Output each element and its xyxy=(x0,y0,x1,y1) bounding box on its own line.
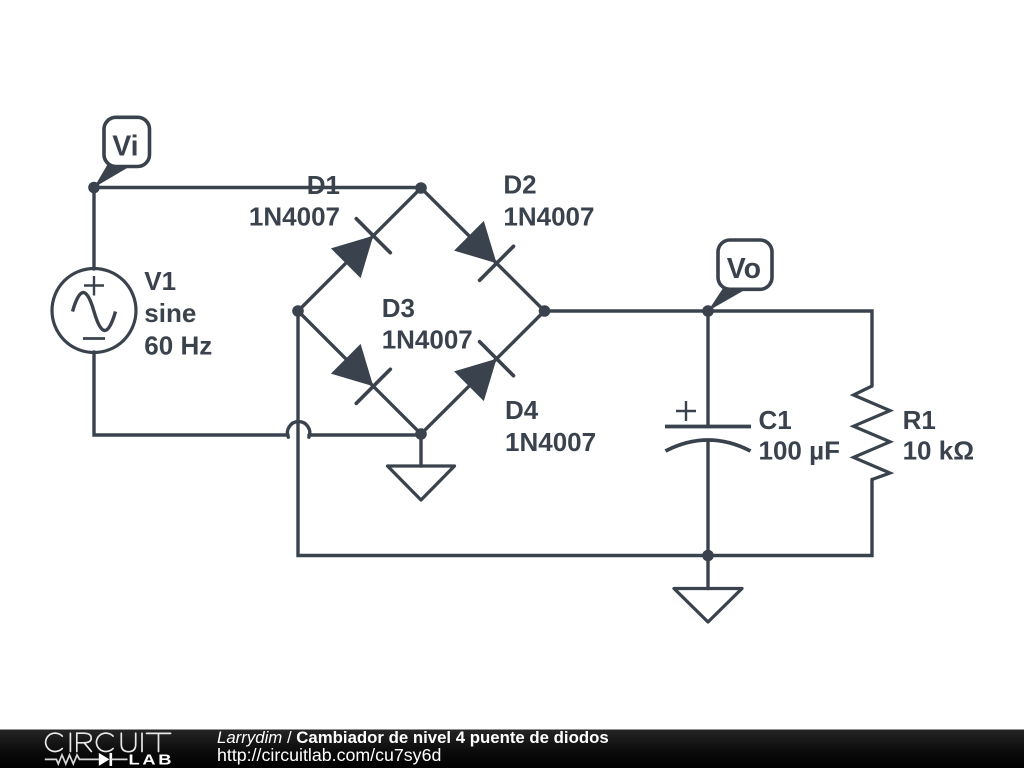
capacitor C1 xyxy=(665,401,751,451)
diode D4 xyxy=(454,342,513,401)
flag Vi xyxy=(94,117,150,187)
svg-text:D1: D1 xyxy=(307,170,340,200)
diode D2 xyxy=(454,221,513,280)
node bridge bottom vertex dot xyxy=(415,428,427,440)
svg-text:1N4007: 1N4007 xyxy=(249,202,340,232)
node ground junction dot xyxy=(702,550,714,562)
wire hop over vertical wire xyxy=(287,422,309,438)
svg-text:C1: C1 xyxy=(759,405,792,435)
ground under bridge xyxy=(388,466,455,500)
wire bridge diamond edges xyxy=(298,188,545,434)
wire from V1 bottom down and left-to-right with corner xyxy=(94,352,288,435)
ground under bottom rail xyxy=(674,589,742,623)
svg-text:10 kΩ: 10 kΩ xyxy=(903,435,974,465)
voltage source V1 xyxy=(52,269,136,353)
svg-text:http://circuitlab.com/cu7sy6d: http://circuitlab.com/cu7sy6d xyxy=(217,745,441,765)
svg-text:V1: V1 xyxy=(144,266,176,296)
svg-text:R1: R1 xyxy=(903,405,936,435)
node bridge right vertex dot xyxy=(539,305,551,317)
svg-text:D3: D3 xyxy=(382,293,415,323)
node bridge top vertex dot xyxy=(415,182,427,194)
wire ground stub below bridge xyxy=(419,434,422,466)
wire from Vi node down to V1 top xyxy=(92,188,95,270)
logo LAB text xyxy=(129,751,175,768)
svg-text:1N4007: 1N4007 xyxy=(503,201,594,231)
svg-text:100 µF: 100 µF xyxy=(759,435,840,465)
wire C1 top lead xyxy=(706,311,709,427)
svg-text:LAB: LAB xyxy=(129,751,175,768)
wire ground stub below bottom rail xyxy=(706,556,709,589)
diode D1 xyxy=(331,219,390,278)
svg-text:1N4007: 1N4007 xyxy=(382,324,473,354)
svg-text:D4: D4 xyxy=(505,395,539,425)
svg-text:sine: sine xyxy=(144,298,196,328)
svg-text:Vo: Vo xyxy=(727,253,761,285)
wire C1 bottom lead xyxy=(706,441,709,556)
wire from bridge right vertex to R1 top lead xyxy=(545,311,873,386)
flag Vo xyxy=(708,240,772,311)
logo resistor-diode line art xyxy=(45,753,128,766)
resistor R1 xyxy=(854,386,891,480)
wire top rail from Vi node to bridge top xyxy=(94,186,421,189)
diode D3 xyxy=(331,344,390,403)
svg-text:D2: D2 xyxy=(503,170,536,200)
node Vo junction dot xyxy=(702,305,714,317)
wire from hop to bridge bottom vertex xyxy=(309,433,421,436)
svg-text:1N4007: 1N4007 xyxy=(505,427,596,457)
logo CIRCUIT thin letters xyxy=(46,733,171,752)
svg-text:60 Hz: 60 Hz xyxy=(144,330,212,360)
footer bar xyxy=(0,730,1024,768)
svg-text:Vi: Vi xyxy=(112,130,138,162)
node bridge left vertex dot xyxy=(292,305,304,317)
wire left vertical down, bottom rail, and R1 bottom lead xyxy=(298,311,872,556)
node Vi junction dot xyxy=(88,182,100,194)
